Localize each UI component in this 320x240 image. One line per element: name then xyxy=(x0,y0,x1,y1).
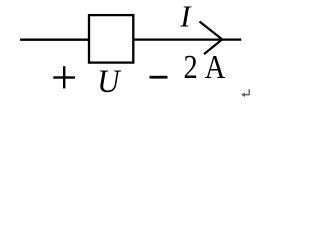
polarity − sign xyxy=(150,76,168,79)
svg-text:A: A xyxy=(205,48,226,86)
svg-text:I: I xyxy=(179,0,192,33)
wire (left lead) xyxy=(20,39,88,41)
svg-text:2: 2 xyxy=(184,48,198,86)
two-terminal element (box) xyxy=(89,15,133,63)
current direction arrowhead xyxy=(200,22,223,55)
polarity + sign xyxy=(53,66,75,88)
paragraph return mark xyxy=(241,89,249,97)
svg-text:U: U xyxy=(97,63,121,99)
wire (right lead) xyxy=(134,38,241,40)
